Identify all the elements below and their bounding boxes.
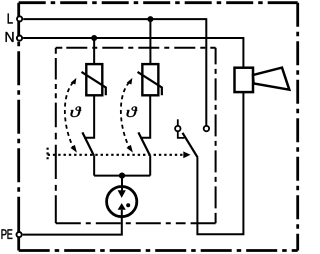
terminal L circle bbox=[17, 16, 22, 21]
mechanical linkage dotted line bbox=[48, 154, 185, 156]
thermal disconnector switch 2 lever bbox=[138, 132, 150, 155]
thermal disconnector switch 1 upper lead and contact seat bbox=[85, 95, 94, 138]
node on N line (varistor 1 tap) bbox=[91, 35, 97, 41]
remote signalling contact seat bbox=[178, 131, 185, 138]
theta label 2 bbox=[127, 106, 138, 117]
terminal N circle bbox=[17, 36, 22, 41]
wire varistor 2 upper lead bbox=[149, 19, 151, 64]
varistor RV2 strike line bbox=[138, 72, 162, 95]
GDT gas-filled dot bbox=[126, 203, 130, 207]
thermal disconnector switch 2 upper lead and contact seat bbox=[141, 95, 151, 138]
varistor RV1 strike line bbox=[82, 72, 106, 95]
wire switch 1 lower lead bbox=[93, 155, 95, 175]
inner module boundary bottom (dash-dot) bbox=[56, 222, 216, 224]
mechanical linkage anchor tick bbox=[46, 148, 48, 161]
label L bbox=[8, 14, 13, 24]
wire L horizontal and drop to signalling contact bbox=[23, 19, 206, 126]
thermal disconnector switch 1 lever bbox=[82, 132, 93, 155]
outer enclosure border bottom (dash-dot) bbox=[19, 249, 298, 252]
horn driver box bbox=[235, 68, 254, 92]
remote signalling contact terminal stub A bbox=[177, 119, 179, 126]
remote signalling contact lever bbox=[183, 133, 198, 158]
thermal actuation arrow 1 (dashed, double headed) bbox=[65, 82, 73, 147]
wire PE horizontal and up to gas discharge tube bbox=[23, 210, 122, 235]
inner module boundary left (dash-dot) bbox=[55, 48, 57, 224]
outer enclosure border top (dash-dot) bbox=[19, 1, 298, 4]
label PE bbox=[2, 229, 7, 239]
wire varistor 1 upper lead bbox=[93, 38, 95, 64]
inner module boundary right (dash-dot) bbox=[215, 48, 217, 224]
wire signalling contact to horn bbox=[197, 92, 243, 234]
thermal actuation arrow 2 (dashed, double headed) bbox=[121, 82, 129, 147]
horn bell bbox=[253, 68, 289, 90]
varistor RV1 body bbox=[86, 64, 102, 95]
varistor RV2 body bbox=[142, 64, 158, 95]
wire common bar joining switch outputs bbox=[94, 175, 150, 177]
GDT lower electrode arrow bbox=[118, 203, 126, 210]
inner module boundary top (dash-dot) bbox=[56, 47, 216, 49]
wire N horizontal and drop to horn bbox=[23, 38, 243, 68]
GDT upper electrode arrow bbox=[118, 190, 126, 198]
mechanical linkage arrowhead bbox=[183, 151, 190, 158]
node common bar / GDT tap bbox=[119, 173, 125, 179]
remote signalling contact terminal A bbox=[175, 126, 180, 131]
wire GDT upper lead bbox=[121, 176, 123, 191]
wire switch 2 lower lead bbox=[149, 155, 151, 175]
remote signalling contact terminal B bbox=[204, 126, 209, 131]
label N bbox=[6, 32, 14, 42]
gas discharge tube F1 envelope bbox=[107, 187, 137, 217]
outer enclosure border right (dash-dot) bbox=[296, 3, 299, 251]
theta label 1 bbox=[71, 106, 82, 117]
outer enclosure border left (dash-dot) bbox=[17, 3, 20, 251]
terminal PE circle bbox=[17, 232, 22, 237]
node on L line (varistor 2 tap) bbox=[147, 16, 153, 22]
